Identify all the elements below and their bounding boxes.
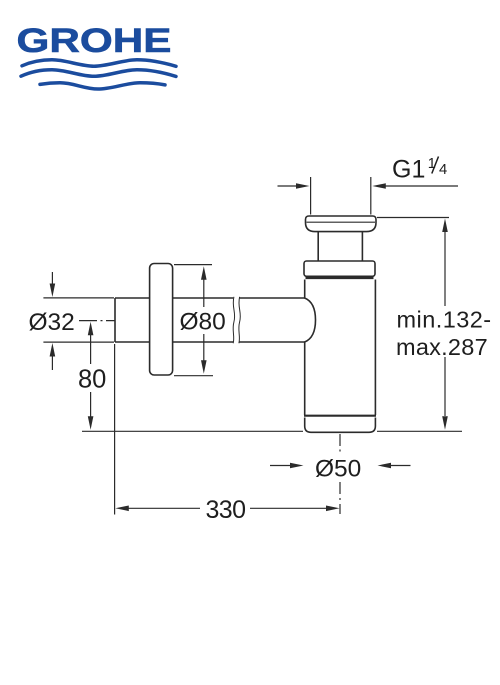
80/330 bottom extension line [82, 430, 303, 432]
dimension G1 1/4 label [392, 156, 447, 184]
Ø50 left arrow (pointing right) [270, 463, 304, 469]
G1 1/4 extension line right [370, 177, 372, 215]
Ø80 bottom extension line [174, 375, 213, 377]
Ø32 dimension text [29, 309, 75, 336]
330 dimension line with arrows [115, 506, 339, 512]
GROHE logo wave 1 [22, 60, 176, 67]
min/max dimension text [396, 307, 492, 360]
trap body cylinder [304, 280, 376, 416]
svg-text:GROHE: GROHE [17, 22, 172, 60]
Ø32 lower dimension line with up arrow [50, 343, 56, 370]
neck tube [318, 232, 362, 261]
Ø32 upper dimension line with down arrow [50, 272, 56, 297]
svg-text:4: 4 [439, 162, 447, 178]
330 left extension line [114, 344, 116, 515]
svg-text:G1: G1 [392, 156, 425, 184]
svg-text:Ø80: Ø80 [180, 309, 226, 336]
G1 1/4 extension line left [310, 177, 312, 215]
svg-text:330: 330 [206, 496, 246, 524]
GROHE logo text [17, 22, 172, 60]
svg-text:Ø50: Ø50 [315, 456, 361, 483]
min/max top extension line [377, 217, 449, 219]
GROHE logo wave 2 [21, 70, 176, 77]
Ø80 dimension line with arrows [201, 266, 207, 374]
svg-text:Ø32: Ø32 [29, 309, 75, 336]
80 dimension text [78, 366, 106, 394]
compression nut [304, 261, 375, 278]
svg-text:80: 80 [78, 366, 106, 394]
inlet pipe [115, 298, 305, 342]
80 dimension line with arrows [88, 322, 94, 430]
body centerline below (dashed) [339, 434, 341, 514]
svg-text:max.287: max.287 [396, 334, 488, 360]
Ø50 right arrow (pointing left) [378, 463, 411, 469]
svg-text:1: 1 [428, 156, 436, 172]
wall flange (escutcheon) [150, 264, 173, 376]
G1 1/4 dimension line left with arrow [278, 183, 310, 189]
Ø50 dimension text [315, 456, 361, 483]
G1 1/4 dimension line right with arrow [372, 183, 458, 189]
pipe break line right [239, 297, 241, 343]
Ø32 bottom extension line [43, 341, 114, 343]
Ø80 top extension line [174, 264, 212, 266]
Ø80 dimension text [180, 309, 226, 336]
pipe centerline (dash-dot) [79, 320, 115, 322]
body bottom cap [305, 418, 376, 433]
top flange (thread connector) [306, 216, 377, 232]
min/max dimension line with arrows [442, 219, 448, 430]
GROHE logo wave 3 [40, 83, 165, 89]
Ø32 top extension line [43, 297, 114, 299]
pipe break line left [233, 297, 235, 343]
330 dimension text [206, 496, 246, 524]
svg-text:min.132-: min.132- [397, 307, 492, 333]
min/max bottom extension line [377, 430, 462, 432]
